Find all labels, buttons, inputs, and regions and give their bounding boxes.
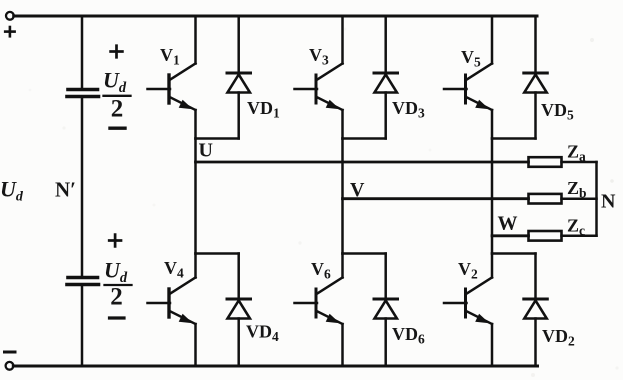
wire branch V2/VD2 [492,252,536,255]
wire V rail [343,197,529,200]
svg-text:Ud: Ud [103,68,127,97]
transistor V1 [148,16,196,139]
wire branch V6/VD6 [343,252,386,255]
terminal - (bottom left) [5,352,16,370]
svg-text:W: W [498,212,518,234]
diode VD4 [227,254,251,367]
diode VD2 [524,254,548,367]
resistor Zb [529,194,562,204]
svg-text:VD1: VD1 [247,98,280,121]
wire top DC rail [14,15,537,18]
label Ud/2 of C1 [103,68,131,123]
resistor Za [529,157,562,167]
terminal + (top left) [5,12,14,36]
label - of C2 [110,316,125,319]
svg-text:VD6: VD6 [392,324,425,347]
diode VD1 [227,16,251,139]
svg-text:V1: V1 [160,45,180,68]
svg-text:VD3: VD3 [392,98,425,121]
wire capacitor column middle [81,98,84,277]
wire Zc to N [562,235,597,238]
wire capacitor column top [81,16,84,88]
label - of C1 [110,126,125,129]
diode VD6 [374,254,398,367]
svg-text:V4: V4 [164,258,184,281]
svg-text:2: 2 [111,96,124,123]
transistor V6 [295,254,343,367]
wire bottom DC rail [13,365,537,368]
svg-text:Ud: Ud [0,177,24,205]
label Ud/2 of C2 [104,258,132,311]
capacitor C2 (lower Ud/2) [67,278,99,285]
wire phase U column [194,139,197,254]
svg-text:VD2: VD2 [542,326,575,349]
svg-text:U: U [199,139,213,161]
wire capacitor column bottom [81,286,84,367]
transistor V4 [148,254,196,367]
wire phase V column [341,139,344,254]
capacitor C1 (upper Ud/2) [67,90,99,97]
wire Zb to N [562,197,597,200]
transistor V3 [295,16,343,139]
svg-text:VD4: VD4 [246,322,279,345]
resistor Zc [529,231,562,241]
wire junction V3/VD3 [343,137,386,140]
diode VD5 [524,16,548,139]
label + of C1 [111,50,123,53]
transistor V5 [444,16,492,139]
wire branch V4/VD4 [196,252,239,255]
svg-text:V2: V2 [458,259,478,282]
svg-text:Za: Za [567,142,586,165]
label + of C2 [109,239,121,242]
svg-text:Zb: Zb [567,178,587,201]
svg-text:VD5: VD5 [541,100,574,123]
wire W rail [492,234,529,237]
wire Za to N [562,161,597,164]
svg-text:V5: V5 [461,47,481,70]
svg-text:N: N [601,191,616,213]
diode VD3 [374,16,398,139]
wire phase W column [491,139,494,254]
svg-text:N′: N′ [55,178,76,202]
svg-text:Ud: Ud [104,258,128,287]
svg-text:2: 2 [110,284,123,311]
wire junction V1/VD1 [196,137,239,140]
svg-text:V3: V3 [309,45,329,68]
transistor V2 [444,254,492,367]
wire U rail [196,161,529,164]
wire neutral bus [595,162,598,236]
svg-text:V6: V6 [311,259,331,282]
wire junction V5/VD5 [492,137,536,140]
